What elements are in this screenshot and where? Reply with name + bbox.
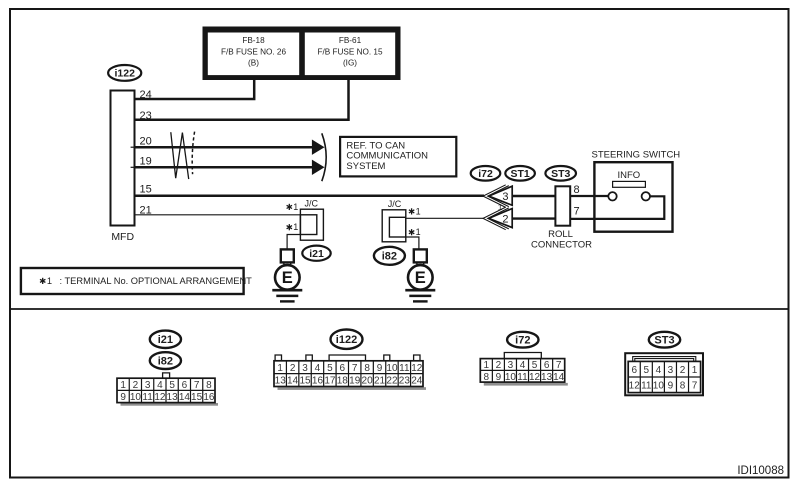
svg-text:i82: i82 (158, 356, 173, 368)
pin 15 label (140, 184, 152, 196)
svg-text:9: 9 (377, 363, 383, 374)
svg-text:8: 8 (484, 372, 490, 383)
svg-text:i72: i72 (478, 168, 493, 180)
svg-text:i72: i72 (515, 335, 530, 347)
svg-text:INFO: INFO (617, 170, 640, 181)
svg-text:12: 12 (411, 363, 423, 374)
svg-text:12: 12 (154, 392, 166, 403)
svg-text:8: 8 (574, 184, 580, 196)
connector pinout i122 (274, 355, 426, 390)
svg-text:24: 24 (411, 376, 423, 387)
svg-text:15: 15 (299, 376, 311, 387)
connector label i21 (pinout) (150, 331, 181, 348)
connector label i82 (374, 247, 405, 265)
svg-text:i122: i122 (114, 68, 135, 80)
INFO key bar (613, 181, 646, 187)
svg-text:5: 5 (169, 380, 175, 391)
svg-text:ST3: ST3 (654, 335, 674, 347)
svg-text:7: 7 (194, 380, 200, 391)
svg-text:5: 5 (327, 363, 333, 374)
svg-text:22: 22 (386, 376, 398, 387)
svg-text:13: 13 (275, 376, 287, 387)
svg-text:20: 20 (362, 376, 374, 387)
svg-text:1: 1 (416, 206, 421, 216)
ground G1 (E) (272, 249, 302, 301)
svg-text:14: 14 (287, 376, 299, 387)
wire pin8 to switch (570, 195, 608, 197)
svg-text:10: 10 (386, 363, 398, 374)
svg-text:13: 13 (167, 392, 179, 403)
pin 19 label (140, 156, 152, 168)
connector pinout i72 (480, 353, 568, 386)
svg-text:7: 7 (692, 380, 698, 391)
svg-text:8: 8 (680, 380, 686, 391)
svg-text:3: 3 (502, 191, 508, 203)
figure number IDI10088 (737, 465, 784, 477)
svg-text:10: 10 (130, 392, 142, 403)
wire arrow3 to roll connector (512, 195, 555, 197)
svg-text:E: E (415, 269, 426, 287)
svg-text:5: 5 (532, 360, 538, 371)
svg-text:1: 1 (416, 227, 421, 237)
wire pin21 thin (136, 214, 301, 216)
svg-text:1: 1 (293, 202, 298, 212)
J/C2 terminal mark *1 top (409, 206, 421, 216)
connector label ST3 (pinout) (649, 332, 680, 348)
MFD connector body (111, 91, 135, 226)
svg-text:3: 3 (145, 380, 151, 391)
svg-text:1: 1 (692, 365, 698, 376)
svg-text:9: 9 (496, 372, 502, 383)
pin 20 label (140, 135, 152, 147)
svg-text:FB-18: FB-18 (242, 36, 265, 45)
svg-text:10: 10 (653, 380, 665, 391)
svg-text:E: E (282, 269, 293, 287)
J/C1 terminal mark *1 top (287, 202, 299, 212)
svg-text:1: 1 (277, 363, 283, 374)
svg-text:12: 12 (529, 372, 541, 383)
svg-text:11: 11 (399, 363, 410, 374)
svg-text:4: 4 (656, 365, 662, 376)
note box: terminal optional arrangement (21, 268, 252, 294)
svg-text:3: 3 (668, 365, 674, 376)
svg-text:14: 14 (179, 392, 191, 403)
wire arrow2 to roll connector (512, 217, 555, 219)
pin 7 label (574, 206, 580, 218)
pin 23 label (140, 110, 152, 122)
wire J/C2 output thin (406, 217, 484, 219)
steering switch box (594, 162, 672, 232)
svg-text:(IG): (IG) (343, 59, 357, 68)
svg-text:IDI10088: IDI10088 (737, 465, 784, 477)
svg-text:9: 9 (120, 392, 126, 403)
pin 8 label (574, 184, 580, 196)
roll connector label (531, 229, 592, 250)
svg-text:15: 15 (191, 392, 203, 403)
connector label i122 (108, 65, 141, 81)
ground G2 (E) (405, 249, 435, 301)
svg-text:ST1: ST1 (510, 168, 529, 180)
svg-text:i82: i82 (382, 251, 397, 263)
switch contact left (608, 192, 616, 200)
svg-text:1: 1 (47, 276, 52, 286)
svg-text:3: 3 (508, 360, 514, 371)
svg-text:2: 2 (496, 360, 502, 371)
fuse box FB-18 / FB-61 (203, 27, 401, 81)
switch contact right (642, 192, 650, 200)
svg-text:F/B FUSE NO. 15: F/B FUSE NO. 15 (317, 47, 383, 56)
wire J/C1 to ground (287, 235, 300, 250)
svg-text:8: 8 (206, 380, 212, 391)
svg-text:i21: i21 (158, 334, 173, 346)
svg-text:6: 6 (631, 365, 637, 376)
connector pinout ST3 (625, 353, 703, 395)
wire pin23 to FB-61 (136, 80, 349, 120)
wire pin15 (136, 194, 485, 197)
MFD label (111, 231, 134, 243)
svg-text:9: 9 (668, 380, 674, 391)
steering switch title (592, 149, 681, 160)
svg-text:2: 2 (133, 380, 139, 391)
roll connector body (555, 186, 570, 225)
svg-text:15: 15 (140, 184, 152, 196)
svg-text:11: 11 (142, 392, 153, 403)
svg-text:J/C: J/C (305, 198, 319, 208)
svg-text:5: 5 (644, 365, 650, 376)
svg-text:7: 7 (556, 360, 562, 371)
inline connector arrow pin 2 (483, 207, 512, 230)
connector label i122 (pinout) (331, 330, 363, 349)
svg-text:11: 11 (641, 380, 652, 391)
svg-text:16: 16 (312, 376, 324, 387)
svg-text:1: 1 (293, 222, 298, 232)
svg-text:2: 2 (502, 213, 508, 225)
wire pin20 CAN with arrowhead (136, 140, 325, 155)
svg-text:4: 4 (157, 380, 163, 391)
svg-text:18: 18 (337, 376, 349, 387)
wire pin7 from switch (570, 196, 664, 219)
connector label i72 (471, 166, 501, 181)
svg-text:19: 19 (140, 156, 152, 168)
svg-text:STEERING SWITCH: STEERING SWITCH (592, 149, 681, 160)
svg-text:2: 2 (290, 363, 296, 374)
svg-text:6: 6 (182, 380, 188, 391)
pin 21 label (140, 204, 152, 216)
svg-text:19: 19 (349, 376, 361, 387)
svg-text:MFD: MFD (111, 231, 134, 243)
svg-text:3: 3 (302, 363, 308, 374)
svg-text:4: 4 (315, 363, 321, 374)
svg-text:14: 14 (553, 372, 565, 383)
svg-text:i21: i21 (309, 248, 324, 260)
svg-text:SYSTEM: SYSTEM (346, 161, 385, 172)
junction connector J/C 2 (382, 199, 406, 242)
svg-text:CONNECTOR: CONNECTOR (531, 240, 592, 251)
svg-text:1: 1 (484, 360, 490, 371)
svg-text:i122: i122 (336, 334, 357, 346)
connector pinout i21/i82 (117, 373, 218, 406)
connector label i21 (302, 246, 330, 261)
svg-text:4: 4 (520, 360, 526, 371)
svg-text:17: 17 (324, 376, 336, 387)
svg-text:10: 10 (505, 372, 517, 383)
svg-text:6: 6 (544, 360, 550, 371)
svg-text:ST3: ST3 (551, 168, 570, 180)
svg-text:(B): (B) (248, 59, 259, 68)
svg-text:16: 16 (203, 392, 215, 403)
J/C1 terminal mark *1 bottom (287, 222, 299, 232)
svg-text:8: 8 (364, 363, 370, 374)
svg-text:7: 7 (574, 206, 580, 218)
svg-text:13: 13 (541, 372, 553, 383)
svg-text:2: 2 (680, 365, 686, 376)
svg-text:J/C: J/C (388, 199, 402, 209)
connector label ST3 (545, 166, 576, 181)
svg-text:21: 21 (374, 376, 386, 387)
wire pin24 to FB-18 (136, 80, 255, 99)
J/C2 terminal mark *1 bottom (409, 227, 421, 237)
CAN system reference box (340, 137, 456, 177)
CAN arc (322, 133, 326, 181)
connector label i82 (pinout) (150, 352, 181, 369)
svg-text:6: 6 (340, 363, 346, 374)
svg-text:12: 12 (629, 380, 641, 391)
connector label i72 (pinout) (507, 332, 538, 348)
inline connector arrow pin 3 (483, 185, 512, 208)
pin 24 label (140, 89, 152, 101)
svg-text:23: 23 (399, 376, 411, 387)
svg-text:20: 20 (140, 135, 152, 147)
wire pin19 CAN with arrowhead (136, 160, 325, 175)
svg-text:FB-61: FB-61 (339, 36, 362, 45)
svg-text:7: 7 (352, 363, 358, 374)
section divider line (9, 308, 789, 310)
junction connector J/C 1 (300, 198, 323, 240)
connector label ST1 (505, 166, 535, 181)
svg-text:F/B FUSE NO. 26: F/B FUSE NO. 26 (221, 47, 287, 56)
svg-text:: TERMINAL No. OPTIONAL ARRANG: : TERMINAL No. OPTIONAL ARRANGEMENT (60, 276, 253, 286)
wire J/C2 to ground (406, 237, 419, 249)
svg-text:11: 11 (517, 372, 528, 383)
svg-text:1: 1 (120, 380, 126, 391)
twisted pair marks (171, 132, 195, 180)
ST1 pin 1 label (498, 203, 503, 212)
INFO label (617, 170, 640, 181)
